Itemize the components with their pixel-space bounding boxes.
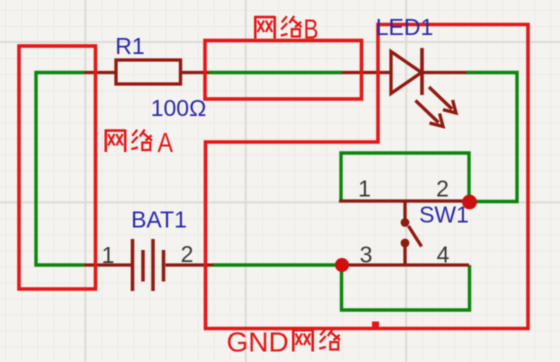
svg-text:B: B	[304, 14, 319, 45]
svg-text:1: 1	[102, 242, 115, 268]
svg-text:BAT1: BAT1	[131, 207, 187, 233]
svg-text:4: 4	[437, 242, 450, 268]
svg-text:A: A	[158, 127, 174, 158]
svg-text:2: 2	[181, 241, 194, 267]
svg-text:1: 1	[358, 176, 371, 202]
svg-text:LED1: LED1	[376, 14, 434, 40]
svg-text:GND: GND	[227, 327, 289, 358]
svg-text:2: 2	[436, 176, 449, 202]
svg-text:3: 3	[360, 242, 373, 268]
svg-text:R1: R1	[115, 33, 144, 59]
svg-text:SW1: SW1	[419, 202, 469, 228]
svg-text:100Ω: 100Ω	[151, 95, 207, 121]
